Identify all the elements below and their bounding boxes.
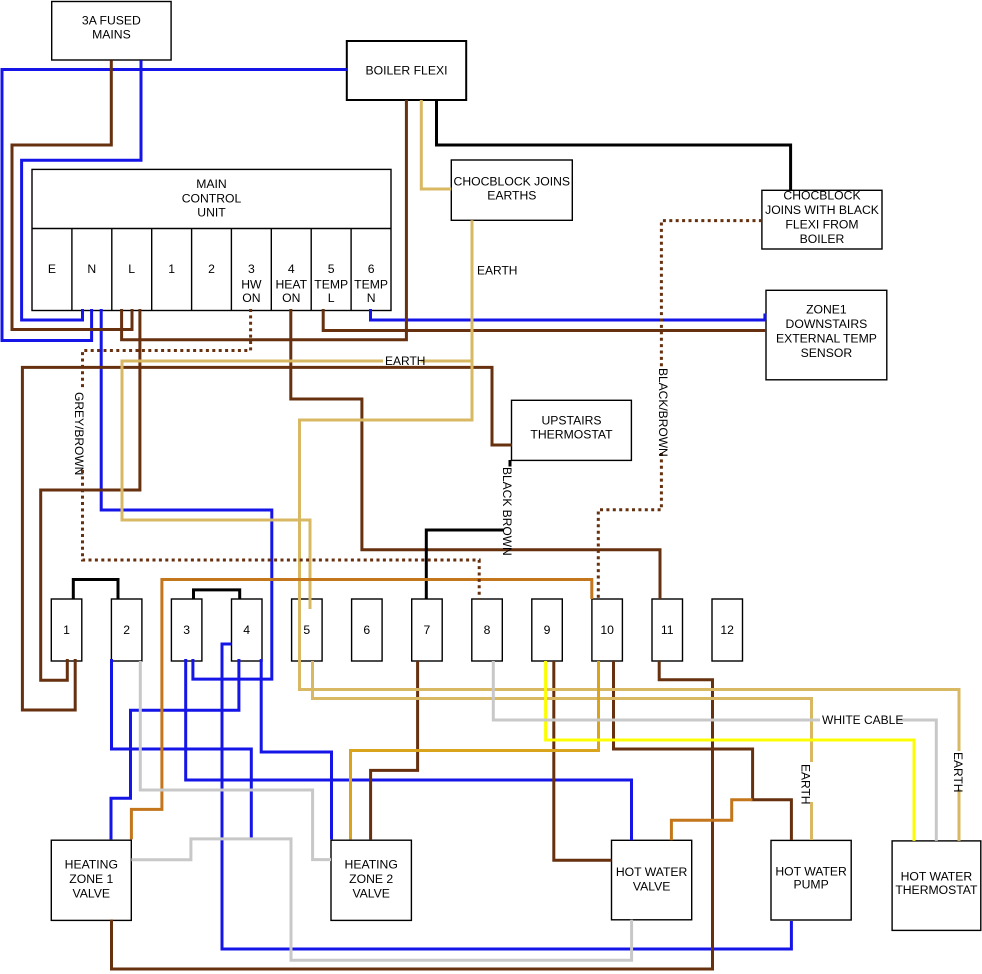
- wire brown L terminal to terminal 1: [41, 309, 140, 680]
- svg-text:HOT WATER: HOT WATER: [775, 864, 847, 878]
- wire earth vertical into hot water pump after label: [810, 802, 813, 840]
- svg-text:HOT WATER: HOT WATER: [616, 865, 688, 879]
- svg-text:L: L: [128, 262, 135, 276]
- svg-text:UNIT: UNIT: [197, 206, 226, 220]
- svg-text:ZONE1: ZONE1: [806, 303, 847, 317]
- wire brown terminal 10 to hot water pump: [614, 661, 792, 840]
- wire blue terminal 4 to heating zone 1 valve: [111, 659, 239, 839]
- box HOT WATER THERMOSTAT: [892, 841, 981, 931]
- svg-text:BOILER FLEXI: BOILER FLEXI: [366, 64, 448, 78]
- wire earth vertical into hot water thermostat after label: [958, 789, 961, 841]
- svg-text:7: 7: [424, 623, 431, 637]
- svg-text:ON: ON: [242, 291, 260, 305]
- svg-text:EARTH: EARTH: [477, 264, 517, 278]
- svg-text:3: 3: [183, 623, 190, 637]
- svg-text:GREY/BROWN: GREY/BROWN: [72, 392, 86, 475]
- wire orange heating zone 1 valve riser: [131, 580, 591, 840]
- wire brown terminal 11 to heating zone 1 valve bottom: [112, 661, 713, 969]
- svg-text:PUMP: PUMP: [793, 878, 828, 892]
- svg-text:WHITE CABLE: WHITE CABLE: [822, 713, 903, 727]
- svg-text:10: 10: [600, 623, 614, 637]
- svg-text:BOILER: BOILER: [800, 232, 845, 246]
- box MAIN CONTROL UNIT: [32, 169, 391, 310]
- wire earth branch (right of EARTH text): [421, 360, 473, 363]
- svg-text:11: 11: [661, 623, 674, 637]
- wire black jumper terminals 1-2: [73, 580, 118, 600]
- wire black to terminal 7: [426, 530, 504, 599]
- box HOT WATER PUMP: [771, 840, 851, 920]
- wire brown HEAT ON to terminal 11: [291, 309, 660, 599]
- svg-text:TEMP: TEMP: [354, 278, 388, 292]
- box CHOCBLOCK JOINS WITH BLACK FLEXI FROM BOILER: [762, 189, 882, 250]
- svg-text:9: 9: [544, 623, 551, 637]
- svg-text:THERMOSTAT: THERMOSTAT: [895, 883, 978, 897]
- wire dotted black/brown label to terminal 10: [598, 453, 661, 599]
- wire brown L terminal to boiler flexi: [122, 100, 407, 340]
- svg-text:BLACK/BROWN: BLACK/BROWN: [656, 368, 670, 457]
- svg-text:DOWNSTAIRS: DOWNSTAIRS: [786, 317, 868, 331]
- wire black jumper terminals 3-4: [194, 590, 240, 599]
- box BOILER FLEXI: [347, 41, 466, 100]
- wire blue boiler-flexi to N terminal via left edge: [2, 70, 347, 341]
- svg-text:N: N: [87, 262, 96, 276]
- wire orange hot water valve to brown junction: [671, 800, 752, 841]
- wire brown upstairs thermostat to terminal 1: [22, 367, 511, 710]
- svg-text:MAINS: MAINS: [92, 28, 131, 42]
- svg-text:THERMOSTAT: THERMOSTAT: [530, 427, 613, 441]
- wire grey white-cable (right of label): [897, 720, 936, 841]
- svg-text:FLEXI FROM: FLEXI FROM: [785, 218, 858, 232]
- wire brown TEMP L to zone1 sensor: [323, 309, 766, 331]
- svg-text:3: 3: [248, 262, 255, 276]
- wire dotted black/brown chocblock to label: [661, 221, 762, 367]
- svg-text:4: 4: [243, 623, 250, 637]
- svg-text:VALVE: VALVE: [633, 879, 670, 893]
- svg-text:HEATING: HEATING: [65, 858, 118, 872]
- svg-text:MAIN: MAIN: [196, 177, 226, 191]
- wire brown terminal 9 to hot water valve left side: [554, 661, 612, 860]
- svg-text:4: 4: [288, 262, 295, 276]
- box UPSTAIRS THERMOSTAT: [512, 400, 632, 460]
- svg-text:EARTHS: EARTHS: [487, 189, 536, 203]
- svg-text:2: 2: [208, 262, 215, 276]
- svg-text:1: 1: [168, 262, 175, 276]
- svg-text:HEAT: HEAT: [275, 278, 307, 292]
- svg-text:6: 6: [368, 262, 375, 276]
- wire black upstairs thermostat stub: [509, 460, 512, 467]
- wire blue terminal 2 to grey junction: [112, 659, 252, 840]
- wire blue TEMP N to zone1 sensor: [371, 309, 767, 320]
- terminal strip boxes 1-12: [51, 599, 742, 661]
- wire grey heating zone 1 valve to hot water valve bottom: [131, 839, 631, 960]
- svg-text:CHOCBLOCK JOINS: CHOCBLOCK JOINS: [454, 175, 570, 189]
- wire earth branch to control-unit side (left of EARTH text): [122, 361, 383, 609]
- wire yellow terminal 9 to hot water thermostat: [546, 661, 914, 841]
- svg-text:JOINS WITH BLACK: JOINS WITH BLACK: [765, 203, 879, 217]
- box ZONE1 DOWNSTAIRS EXTERNAL TEMP SENSOR: [766, 290, 887, 380]
- svg-text:HEATING: HEATING: [345, 858, 398, 872]
- svg-text:EARTH: EARTH: [799, 764, 813, 804]
- svg-text:TEMP: TEMP: [314, 278, 348, 292]
- svg-text:L: L: [328, 291, 335, 305]
- wire brown terminal 7 to heating zone 2 valve: [371, 661, 418, 839]
- box HOT WATER VALVE: [612, 840, 692, 920]
- wire blue terminal 4 side-stub to hot water pump bottom: [222, 644, 791, 949]
- svg-text:BLACK BROWN: BLACK BROWN: [500, 467, 514, 556]
- svg-text:2: 2: [123, 623, 130, 637]
- wire earth boiler flexi to chocblock earths: [421, 100, 451, 189]
- wire blue N terminal down to terminal 3: [101, 309, 272, 679]
- wire gold terminal 10 to heating zone 2 valve: [351, 661, 599, 839]
- wire black boiler flexi to chocblock: [437, 100, 791, 190]
- svg-text:EARTH: EARTH: [385, 354, 425, 368]
- svg-text:6: 6: [363, 623, 370, 637]
- svg-text:ZONE 2: ZONE 2: [349, 872, 393, 886]
- wire dotted grey/brown HW ON to terminal 8 (upper part): [83, 309, 251, 390]
- box HEATING ZONE 1 VALVE: [51, 840, 131, 920]
- wire grey terminal 2 to heating zone 2 valve: [140, 661, 331, 860]
- box 3A FUSED MAINS: [52, 2, 171, 61]
- svg-text:5: 5: [303, 623, 310, 637]
- box CHOCBLOCK JOINS EARTHS: [451, 160, 572, 220]
- svg-text:SENSOR: SENSOR: [801, 346, 853, 360]
- svg-text:5: 5: [328, 262, 335, 276]
- wire blue terminal 3 to hot water valve: [186, 659, 632, 840]
- svg-text:UPSTAIRS: UPSTAIRS: [541, 414, 601, 428]
- wire earth terminal 5 to hot water pump: [313, 661, 812, 762]
- wire grey white-cable terminal 8 to hot water thermostat (left of label): [493, 661, 820, 720]
- svg-text:EXTERNAL TEMP: EXTERNAL TEMP: [776, 332, 877, 346]
- svg-text:HW: HW: [241, 278, 262, 292]
- svg-text:E: E: [48, 262, 56, 276]
- svg-text:VALVE: VALVE: [73, 887, 110, 901]
- svg-text:EARTH: EARTH: [951, 752, 965, 792]
- box HEATING ZONE 2 VALVE: [331, 840, 411, 920]
- wire brown mains to L terminal: [12, 60, 132, 329]
- svg-text:ON: ON: [282, 291, 300, 305]
- svg-text:N: N: [367, 291, 376, 305]
- svg-text:12: 12: [720, 623, 734, 637]
- wire blue terminal 4 to heating zone 2 valve: [261, 659, 331, 839]
- svg-text:VALVE: VALVE: [352, 887, 389, 901]
- svg-text:1: 1: [63, 623, 70, 637]
- svg-text:3A FUSED: 3A FUSED: [82, 13, 141, 27]
- wire earth chocblock earths main drop: [300, 220, 960, 751]
- svg-text:ZONE 1: ZONE 1: [69, 872, 113, 886]
- svg-text:CONTROL: CONTROL: [182, 192, 242, 206]
- svg-text:HOT WATER: HOT WATER: [901, 870, 973, 884]
- wire blue mains to N terminal: [22, 60, 141, 320]
- svg-text:CHOCBLOCK: CHOCBLOCK: [783, 189, 860, 203]
- wire dotted grey/brown lower part: [83, 470, 480, 599]
- svg-text:8: 8: [484, 623, 491, 637]
- wire blue stub at zone1 sensor: [763, 314, 766, 321]
